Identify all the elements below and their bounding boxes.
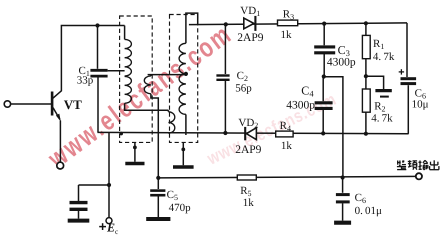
svg-text:10μ: 10μ [412, 98, 429, 110]
svg-text:2AP9: 2AP9 [237, 32, 263, 44]
svg-text:0. 01μ: 0. 01μ [355, 205, 382, 217]
svg-text:470p: 470p [169, 202, 192, 214]
svg-text:VT: VT [64, 97, 82, 112]
svg-text:33p: 33p [77, 75, 94, 87]
svg-text:4. 7k: 4. 7k [373, 51, 395, 63]
svg-text:2AP9: 2AP9 [235, 144, 261, 156]
svg-text:1k: 1k [243, 197, 255, 209]
svg-text:56p: 56p [235, 82, 252, 94]
svg-text:4300p: 4300p [286, 99, 315, 111]
svg-text:4300p: 4300p [327, 57, 356, 69]
svg-text:1k: 1k [281, 29, 293, 41]
svg-text:1k: 1k [281, 140, 293, 152]
svg-text:4. 7k: 4. 7k [371, 112, 393, 124]
